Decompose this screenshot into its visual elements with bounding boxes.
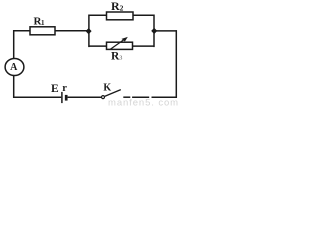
resistor R1	[30, 27, 55, 35]
rheostat R3 arrowhead	[122, 37, 128, 42]
svg-text:manfen5. com: manfen5. com	[108, 97, 178, 106]
wire bottom branch right	[133, 45, 155, 47]
svg-text:r: r	[62, 83, 67, 94]
wire battery to switch	[68, 96, 102, 98]
wire parallel right vertical	[153, 15, 155, 48]
wire right junction to outer	[154, 30, 177, 32]
rheostat R3 box	[107, 42, 133, 49]
node left junction	[86, 29, 91, 34]
rheostat R3 arrow shaft	[110, 39, 125, 49]
resistor R2	[107, 12, 134, 20]
wire bottom branch left	[89, 45, 107, 47]
svg-text:K: K	[103, 83, 111, 94]
svg-text:A: A	[10, 62, 18, 73]
wire switch to bottom-right (segment 1)	[123, 96, 130, 98]
wire bottom-left	[13, 96, 61, 98]
wire parallel left vertical	[88, 15, 90, 48]
wire switch to bottom-right (segment 2)	[132, 96, 149, 98]
wire top branch right	[133, 14, 154, 16]
svg-text:E: E	[51, 83, 59, 95]
wire left vertical (top)	[13, 30, 15, 59]
battery E r : long plate	[61, 92, 63, 103]
battery E r : short thick plate	[65, 95, 68, 101]
svg-text:R3: R3	[111, 51, 122, 63]
wire R1 to left junction	[55, 30, 90, 32]
svg-text:R2: R2	[111, 0, 124, 13]
wire switch to bottom-right (segment 3)	[152, 96, 178, 98]
node right junction	[152, 28, 157, 33]
switch K pivot circle	[102, 96, 105, 99]
switch K lever	[105, 90, 121, 97]
wire left vertical (bottom)	[13, 76, 15, 98]
wire right vertical outer	[175, 30, 177, 98]
wire top-left horizontal	[13, 30, 30, 32]
wire top branch left	[89, 14, 107, 16]
ammeter A	[5, 59, 24, 76]
svg-text:R1: R1	[34, 16, 46, 28]
